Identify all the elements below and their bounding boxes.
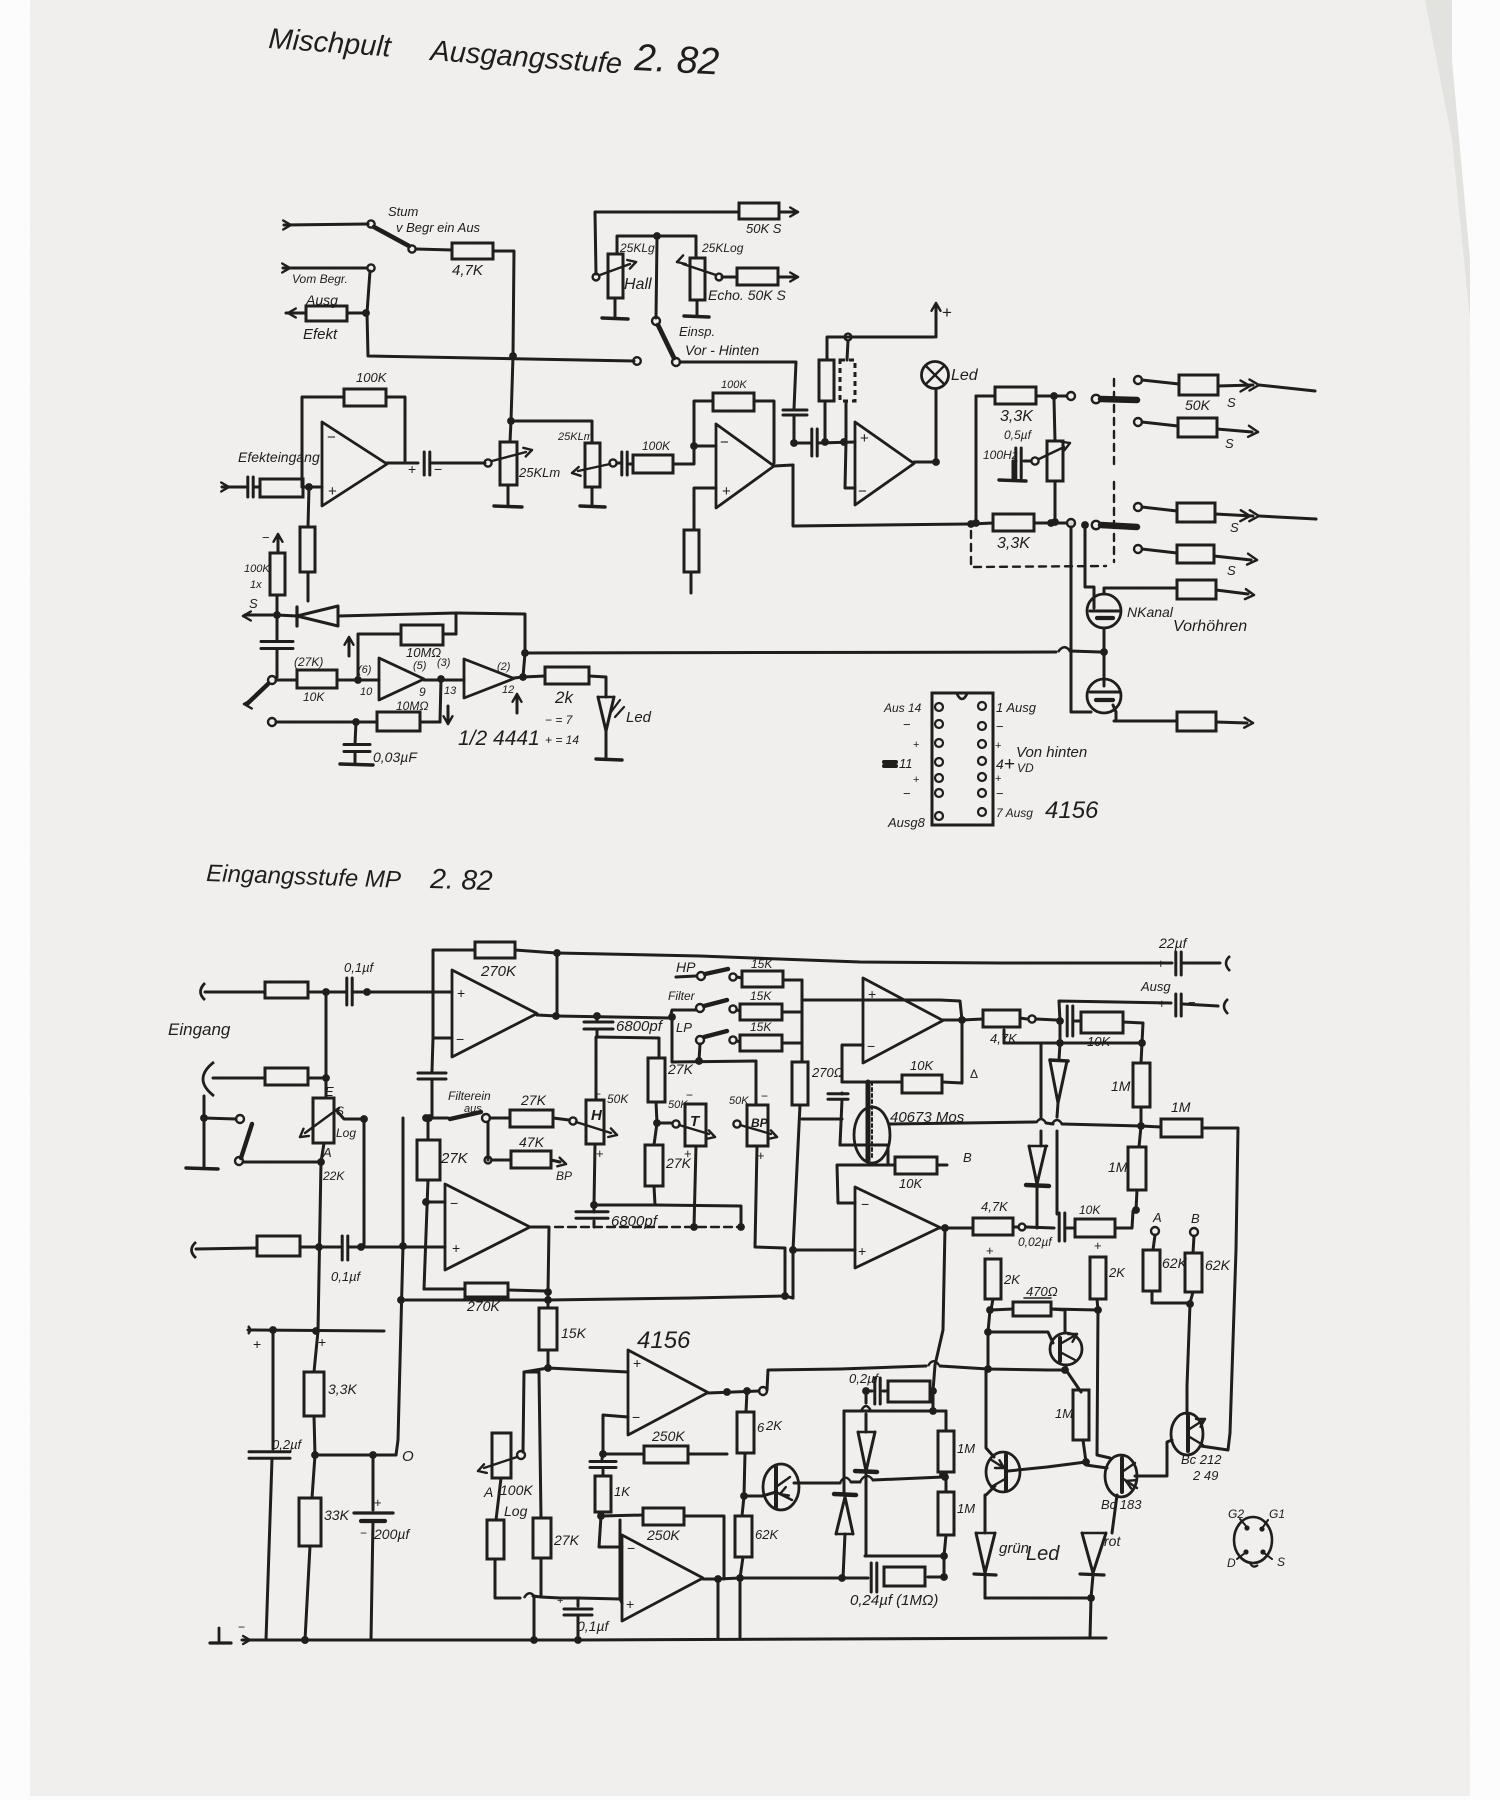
wire: LP switch to T/BP bus <box>699 1044 700 1061</box>
potentiometer P1 25KLm <box>484 459 491 466</box>
capacitor 6800pf lower <box>576 1210 608 1213</box>
resistor Echo 50K S <box>722 276 737 279</box>
resistor below U2 + input <box>694 488 716 530</box>
svg-text:4156: 4156 <box>637 1327 691 1354</box>
wire: vertical bus 2 zero line <box>380 1118 403 1455</box>
wire: 0,24uF right up link <box>943 1556 946 1577</box>
svg-text:+: + <box>457 985 465 1001</box>
wire: IN1 lower output to feedback node <box>530 1227 549 1292</box>
resistor 10K row A <box>1075 1020 1081 1023</box>
wire: LED bottoms join <box>985 1597 1091 1600</box>
node output line 1 thick <box>1092 395 1100 403</box>
svg-text:+: + <box>374 1495 382 1510</box>
resistor 1K <box>595 1476 611 1512</box>
svg-text:−: − <box>327 429 336 446</box>
svg-text:(3): (3) <box>437 657 451 669</box>
svg-text:+: + <box>253 1336 261 1352</box>
svg-text:+: + <box>942 303 952 322</box>
svg-text:S: S <box>249 596 258 611</box>
resistor 1M-A vertical <box>1133 1063 1150 1107</box>
svg-text:10K: 10K <box>303 690 325 704</box>
ground below P2 <box>591 487 594 505</box>
ground below LED D2 <box>596 759 622 760</box>
svg-text:1M: 1M <box>957 1441 975 1456</box>
capacitor after P2 <box>617 462 620 465</box>
resistor 100K to op U2 <box>629 463 633 466</box>
wire: 62K join to T3 <box>1187 1304 1190 1414</box>
svg-text:15K: 15K <box>750 1020 772 1034</box>
switch mute input <box>204 1118 236 1119</box>
resistor 250K feedback U6a <box>599 1516 622 1547</box>
input jack 2 <box>203 1062 214 1096</box>
wire: BC212 emitter right to 1M-B column <box>1201 1433 1230 1450</box>
wire: U2 minus input <box>694 445 716 448</box>
LED gruen <box>976 1532 995 1535</box>
wire: row2 to E pot top <box>325 992 328 1098</box>
capacitor 6800pf upper <box>593 1012 601 1020</box>
svg-text:Vor - Hinten: Vor - Hinten <box>685 342 759 358</box>
resistor 270R <box>792 1062 808 1105</box>
svg-text:+: + <box>913 739 919 751</box>
svg-text:B: B <box>963 1150 972 1165</box>
wire: U3 minus feedback from dashed resistor <box>845 442 855 488</box>
IC U5 4156 pinout <box>932 693 993 825</box>
resistor 10M-1 feedback <box>401 625 443 645</box>
wire: U2 output to node <box>774 465 793 466</box>
svg-text:22µf: 22µf <box>1158 935 1189 951</box>
resistor 33K power <box>312 1455 315 1498</box>
svg-text:50K: 50K <box>729 1095 749 1107</box>
svg-text:Vorhöhren: Vorhöhren <box>1173 618 1247 635</box>
node output line 2 thick <box>1092 521 1100 529</box>
svg-text:15K: 15K <box>751 957 773 971</box>
svg-text:50K S: 50K S <box>746 221 782 236</box>
wire: cap node to 270R vertical <box>802 1118 842 1121</box>
svg-text:−: − <box>996 786 1004 801</box>
svg-text:0,1µf: 0,1µf <box>331 1269 362 1284</box>
svg-text:3,3K: 3,3K <box>997 535 1031 552</box>
svg-text:+: + <box>1004 754 1015 775</box>
resistor 27K-a <box>648 1058 665 1102</box>
dashed boundary output section <box>970 531 972 568</box>
wire: node down to 100K pot wiper <box>523 1368 548 1452</box>
output row 5 resistor from FET Q1 <box>1116 587 1177 590</box>
wire: divider node O line <box>315 1454 396 1457</box>
wire: IN2 output <box>943 1019 962 1022</box>
diode D5 up <box>865 1391 868 1403</box>
capacitor 0,024 after 4,7K <box>1066 1006 1069 1036</box>
wire: 470R/2K-2 node down to BC183 collector <box>1051 1309 1098 1310</box>
diode D1 <box>277 615 297 616</box>
wire: bracket over Hall and Echo pots <box>617 236 696 258</box>
svg-text:Led: Led <box>1026 1543 1060 1565</box>
svg-text:A: A <box>1152 1210 1162 1225</box>
svg-text:Log: Log <box>336 1126 356 1140</box>
op-amp U4b 1/2 4441 <box>464 659 514 698</box>
FET Q2 N-Kanal <box>1087 679 1121 713</box>
potentiometer 100K Log <box>492 1433 511 1478</box>
svg-text:+: + <box>684 1146 692 1161</box>
svg-text:(6): (6) <box>358 664 372 676</box>
wire: IN1 output row <box>537 1015 557 1016</box>
svg-text:9: 9 <box>419 685 426 699</box>
wire: IN3 + from 270R <box>793 1249 855 1252</box>
switch S2 Einsp Vor-Hinten <box>656 239 657 318</box>
diode D4 <box>1040 1043 1043 1117</box>
svg-text:100K: 100K <box>721 379 747 391</box>
svg-text:27K: 27K <box>667 1061 694 1077</box>
wire: BC183 to BC212 base <box>1135 1440 1172 1476</box>
svg-text:Bc 212: Bc 212 <box>1181 1452 1222 1467</box>
svg-text:0,1µf: 0,1µf <box>344 960 375 975</box>
svg-text:47K: 47K <box>519 1134 545 1150</box>
svg-text:1M: 1M <box>957 1501 975 1516</box>
svg-text:O: O <box>402 1448 414 1465</box>
svg-text:−: − <box>1188 995 1196 1010</box>
wire: 0,1uF node to U6b + <box>578 1520 620 1599</box>
diode D3 <box>1059 1021 1060 1060</box>
wire: Filterein switch row <box>429 1117 448 1120</box>
potentiometer 0,5uF trim <box>1039 447 1064 459</box>
svg-text:0,1µf: 0,1µf <box>577 1618 611 1634</box>
ground below 0,03uF <box>340 764 373 765</box>
wire: 2K-1 node down <box>986 1306 994 1314</box>
svg-text:2K: 2K <box>1003 1272 1021 1287</box>
resistor 4,7K after IN2 <box>962 1019 983 1020</box>
svg-text:+: + <box>722 483 731 500</box>
op-amp U4a 1/2 4441 <box>379 658 424 700</box>
resistor 4,7K after IN3 <box>973 1218 1013 1235</box>
resistor input row 2 <box>265 1068 308 1085</box>
resistor 27K filter in <box>490 1117 510 1120</box>
wire: IN2 + line crossing to output node (as drawn) <box>863 1000 962 1020</box>
wire: U6a output <box>708 1391 759 1393</box>
wire: row continues under T1 <box>1048 1369 1065 1372</box>
svg-text:Filter: Filter <box>668 989 696 1003</box>
capacitor U6 chain <box>602 1454 603 1459</box>
potentiometer P2 25KLm <box>585 443 600 487</box>
svg-text:0,24µf (1MΩ): 0,24µf (1MΩ) <box>850 1592 938 1609</box>
wire: 50K send bus top <box>595 212 739 274</box>
wire: 1411 row to 1M-E chain <box>945 1411 948 1431</box>
svg-text:10: 10 <box>360 686 373 698</box>
power rail S + <box>248 1326 250 1334</box>
resistor 47K <box>487 1122 490 1160</box>
transistor T4 gruen driver <box>986 1452 1020 1492</box>
resistor 270K feedback IN1 lower <box>424 1288 465 1291</box>
wire: jack2 sleeve to ground <box>203 1096 206 1168</box>
resistor 250K feedback U6b <box>601 1515 643 1516</box>
svg-text:470Ω: 470Ω <box>1026 1284 1058 1299</box>
resistor 15K LP <box>737 1041 740 1042</box>
svg-text:50K: 50K <box>668 1099 688 1111</box>
svg-text:−: − <box>238 1620 245 1634</box>
svg-text:−: − <box>861 1196 869 1212</box>
resistor 470R <box>991 1309 1013 1310</box>
row y1411 <box>844 1410 946 1413</box>
diode D6 down <box>843 1411 846 1493</box>
wire: U4a out to U4b in <box>424 679 464 682</box>
svg-text:+: + <box>596 1146 604 1161</box>
resistor 1M-F <box>938 1492 954 1535</box>
transistor BC183 <box>1105 1455 1137 1497</box>
lamp LED output <box>922 362 949 389</box>
wire: U6b output row <box>703 1578 841 1579</box>
svg-text:6: 6 <box>757 1420 765 1435</box>
svg-text:50K: 50K <box>1185 397 1211 413</box>
svg-text:1 Ausg: 1 Ausg <box>996 700 1037 715</box>
svg-text:VD: VD <box>1017 761 1034 775</box>
wire: T1 emitter to 1M-D <box>1066 1365 1081 1392</box>
svg-text:NKanal: NKanal <box>1127 604 1174 620</box>
svg-text:25KLog: 25KLog <box>701 241 744 255</box>
wire: 27K-a to T wiper node <box>656 1102 657 1123</box>
wire: line from node down to Q2 <box>1070 522 1073 525</box>
capacitor 200uF power <box>372 1455 375 1510</box>
wire: 1M-D bottom to BC183 base <box>1086 1462 1107 1468</box>
svg-text:+: + <box>408 461 416 477</box>
svg-text:25KLm: 25KLm <box>518 465 560 480</box>
svg-text:270Ω: 270Ω <box>811 1065 844 1080</box>
resistor 1M-B horizontal <box>1141 1126 1161 1127</box>
op-amp U6b 4156 <box>622 1535 703 1621</box>
transistor T1 <box>1050 1333 1082 1365</box>
svg-text:7 Ausg: 7 Ausg <box>996 806 1033 820</box>
wire: BP bottom to zero line <box>755 1146 785 1296</box>
svg-text:−: − <box>903 717 911 732</box>
wire: Vom Begr input <box>282 268 290 273</box>
wire: Filter contact from IN1 output bus <box>670 1010 696 1018</box>
svg-text:250K: 250K <box>646 1527 680 1543</box>
wire: U4b output node <box>519 673 527 681</box>
svg-text:Vom Begr.: Vom Begr. <box>292 272 348 286</box>
resistor 10K row C <box>1067 1227 1075 1230</box>
wire: E pot bottom down power divider <box>314 1143 324 1372</box>
resistor 15K Filter <box>737 1010 740 1011</box>
resistor 10K feedback IN2 <box>842 1081 902 1084</box>
resistor 1M-C vertical <box>1139 1126 1141 1147</box>
svg-text:−: − <box>627 1540 635 1556</box>
svg-text:−: − <box>867 1038 875 1054</box>
svg-text:Echo. 50K S: Echo. 50K S <box>708 287 786 303</box>
svg-text:−: − <box>720 434 729 451</box>
wire: IN3 output row <box>940 1227 973 1230</box>
capacitor 0,03uF <box>355 722 356 744</box>
ground below Hall pot <box>614 298 617 317</box>
capacitor 0,1uF row 3 <box>341 1236 344 1260</box>
svg-text:+: + <box>995 773 1001 785</box>
capacitor 0,02uF <box>1026 1227 1054 1228</box>
svg-text:13: 13 <box>444 685 457 697</box>
wire: node to 15K and + of 4156a <box>547 1292 550 1308</box>
wire: top bar to + supply <box>828 336 934 339</box>
svg-text:+: + <box>633 1355 641 1371</box>
wire: 470R right to T1 collector <box>1051 1309 1065 1333</box>
arrow up marker <box>348 640 351 656</box>
switch S3 feedback select <box>244 700 252 705</box>
svg-text:10K: 10K <box>1079 1203 1101 1217</box>
svg-text:Von hinten: Von hinten <box>1016 744 1087 761</box>
resistor 1M-D <box>1073 1390 1089 1440</box>
wire: long bus to 22uF <box>557 953 1172 963</box>
svg-text:0,2µf: 0,2µf <box>272 1437 303 1452</box>
svg-text:27K: 27K <box>553 1532 580 1548</box>
resistor input row 1 <box>265 982 308 998</box>
svg-text:Δ: Δ <box>970 1067 978 1081</box>
wire: IN3 output vertical to lower section <box>935 1228 945 1365</box>
svg-text:+: + <box>557 1595 563 1607</box>
svg-text:−: − <box>903 786 911 801</box>
wire: Efekt input arrow <box>221 487 229 492</box>
input jack 1 <box>201 983 206 1000</box>
svg-text:−: − <box>262 530 270 545</box>
svg-text:+: + <box>1157 956 1165 971</box>
svg-text:Efekteingang: Efekteingang <box>238 449 320 465</box>
svg-text:0,02µf: 0,02µf <box>1018 1235 1053 1249</box>
svg-text:Ausg: Ausg <box>1140 979 1171 994</box>
svg-text:4,7K: 4,7K <box>452 262 484 279</box>
wire: hop to ground rail <box>524 1593 535 1598</box>
svg-text:− = 7: − = 7 <box>545 713 574 727</box>
resistor 50K S (top send) <box>739 203 779 219</box>
wire: 10K-B to IN3 minus <box>837 1165 888 1203</box>
svg-text:1M: 1M <box>1108 1159 1128 1175</box>
svg-text:+: + <box>318 1334 326 1350</box>
output row 6 resistor from FET Q2 <box>1114 720 1177 723</box>
svg-text:100K: 100K <box>244 563 270 575</box>
resistor 10K row B <box>888 1164 895 1167</box>
capacitor Einsp injection <box>783 409 807 412</box>
wire: 4,7K to node down to pot P1 <box>493 251 514 442</box>
svg-text:Led: Led <box>951 367 979 384</box>
wire: U1 feedback loop <box>302 397 344 487</box>
svg-text:1M: 1M <box>1111 1078 1131 1094</box>
resistor 3,3K power <box>304 1372 324 1416</box>
svg-text:S: S <box>1227 395 1236 410</box>
svg-text:1/2 4441: 1/2 4441 <box>458 727 540 750</box>
svg-text:−: − <box>858 483 867 500</box>
svg-text:22K: 22K <box>322 1169 345 1183</box>
svg-text:G2: G2 <box>1228 1507 1244 1521</box>
svg-text:S: S <box>1277 1555 1285 1569</box>
MOSFET Q3 40673 <box>854 1107 890 1163</box>
svg-text:25KLm: 25KLm <box>557 431 593 443</box>
resistor 100K feedback op U1 <box>344 389 386 406</box>
output jack row 4 resistor <box>1134 545 1142 553</box>
capacitor 0,24uF (1M) feedback <box>870 1563 873 1592</box>
resistor 62K-B <box>1185 1253 1202 1292</box>
wire: row3 to IN1 lower + <box>361 1246 445 1249</box>
svg-text:1M: 1M <box>1055 1406 1073 1421</box>
wire: switch to E pot bottom <box>243 1161 318 1164</box>
svg-text:15K: 15K <box>750 989 772 1003</box>
wire: 15K node to 4156a + <box>548 1368 628 1372</box>
dashed line below 6800pf <box>593 1221 596 1227</box>
svg-text:62K: 62K <box>1205 1257 1231 1273</box>
wire: H/27Kb bottom bus <box>594 1205 741 1227</box>
wire: T2 right to diode row <box>794 1482 840 1485</box>
resistor 62K-A <box>1143 1250 1160 1291</box>
FET Q1 N-Kanal <box>1087 594 1121 628</box>
resistor 100K 1x limiter <box>277 537 280 552</box>
resistor 15K mid <box>539 1308 557 1350</box>
svg-text:Einsp.: Einsp. <box>679 324 715 339</box>
resistor 62K-C <box>735 1516 752 1557</box>
svg-text:S: S <box>1227 563 1236 578</box>
potentiometer Echo 25KLog <box>690 258 705 300</box>
svg-text:(27K): (27K) <box>294 655 323 669</box>
resistor 15K HP <box>737 977 742 978</box>
potentiometer Hall 25KLg <box>593 274 600 281</box>
svg-text:−: − <box>632 1409 640 1425</box>
svg-text:2. 82: 2. 82 <box>633 37 721 83</box>
wire: IN2 minus loop <box>842 1045 863 1082</box>
svg-text:v Begr ein Aus: v Begr ein Aus <box>396 220 481 235</box>
svg-text:100K: 100K <box>356 370 388 385</box>
wire: left power branch <box>272 1330 275 1449</box>
svg-text:+: + <box>1158 996 1166 1011</box>
wire: vertical through 0,2uF node <box>933 1365 935 1411</box>
wire: base line to T1 <box>988 1332 1053 1343</box>
ground below 0,5uF cap <box>1013 460 1016 463</box>
wire: Einsp switch to injection cap <box>680 362 796 409</box>
svg-text:+: + <box>860 430 869 447</box>
wire: vertical bus 1 <box>363 1119 366 1247</box>
wire: cap from switch node <box>261 640 293 643</box>
potentiometer H 50K wiper <box>576 1122 611 1133</box>
op-amp U3 <box>855 422 914 505</box>
resistor 3,3K lower <box>993 514 1034 531</box>
resistor 27K IN1 chain <box>417 1140 440 1180</box>
svg-text:11: 11 <box>899 756 913 771</box>
svg-text:62K: 62K <box>755 1527 779 1542</box>
svg-text:−: − <box>450 1195 458 1211</box>
svg-text:3,3K: 3,3K <box>1000 408 1034 425</box>
op-amp IN1 lower <box>445 1184 530 1270</box>
wire: IN2 + input <box>802 999 863 1002</box>
svg-text:10MΩ: 10MΩ <box>396 699 428 713</box>
svg-text:10K: 10K <box>899 1176 923 1191</box>
svg-text:3,3K: 3,3K <box>328 1381 357 1397</box>
output jack row 3 resistor <box>1134 503 1142 511</box>
wire: BC183 emitter down to rot LED <box>1112 1495 1117 1533</box>
capacitor 0,1uF bottom <box>560 1598 578 1606</box>
svg-text:+: + <box>626 1596 634 1612</box>
svg-text:−: − <box>360 1526 367 1540</box>
wire: row1 to op IN1 + <box>367 991 452 994</box>
svg-text:−: − <box>456 1031 464 1047</box>
svg-text:(2): (2) <box>497 661 511 673</box>
wire: E wiper to bus <box>337 1111 364 1119</box>
svg-text:250K: 250K <box>651 1428 685 1444</box>
wire: junction down and long run to Einsp switch <box>367 271 634 361</box>
svg-text:G1: G1 <box>1269 1507 1285 1521</box>
socket pinout G2 G1 D S <box>1234 1517 1272 1563</box>
LED D2 at 2k <box>598 696 614 699</box>
svg-text:(5): (5) <box>413 660 427 672</box>
resistor 1M feedback box <box>883 1390 888 1393</box>
wire: long gate line from 4441 output <box>525 652 1056 653</box>
svg-text:10K: 10K <box>910 1058 934 1073</box>
svg-text:1K: 1K <box>614 1484 631 1499</box>
svg-text:0,5µf: 0,5µf <box>1004 428 1033 442</box>
resistor Efekt output <box>288 309 296 314</box>
svg-text:+: + <box>986 1243 994 1258</box>
svg-text:2k: 2k <box>554 688 574 707</box>
wire: IN1 lower minus to chain <box>426 1201 445 1204</box>
svg-text:+: + <box>452 1240 460 1256</box>
svg-text:BP: BP <box>556 1169 572 1183</box>
